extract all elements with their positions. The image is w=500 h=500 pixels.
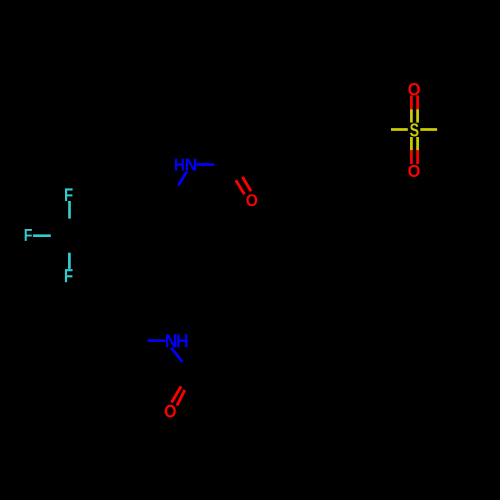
carbonyl O4 label: [165, 405, 176, 418]
bond N1-ring (N half): [178, 171, 187, 185]
fluorine F3 label (bottom): [65, 269, 73, 282]
sulfur S label: [410, 123, 419, 136]
double bond C=O1 line b: [242, 177, 251, 191]
carbonyl O1 label: [246, 194, 257, 206]
bond F3-C (F half): [68, 253, 71, 269]
S=O3 double bond yellow halves: [410, 137, 413, 150]
fluorine F2 label (left): [25, 229, 32, 241]
bond N2-C carbonyl (N half): [171, 348, 182, 362]
bond N1-C carbonyl (N half): [197, 163, 215, 166]
amide 2 label NH: [166, 334, 176, 347]
double bond C=O1 line a: [236, 180, 245, 194]
fluorine F1 label (top): [65, 188, 73, 201]
bond F1-C (F half): [68, 201, 71, 219]
S=O2 double bond red halves: [410, 95, 413, 109]
bond F2-C (F half): [33, 234, 51, 237]
double bond C=O4 line a: [172, 386, 181, 402]
bond S-aryl (S half): [391, 128, 408, 131]
bond N2-CH2 (N half): [148, 339, 166, 342]
S=O3 double bond red halves: [410, 150, 413, 164]
bond S-methyl (S half): [420, 128, 437, 131]
sulfonyl O3 label (bottom): [408, 165, 419, 177]
S=O2 double bond yellow halves: [410, 109, 413, 122]
double bond C=O4 line b: [177, 390, 185, 406]
amide 1 label HN: [175, 159, 184, 171]
sulfonyl O2 label (top): [408, 83, 419, 95]
